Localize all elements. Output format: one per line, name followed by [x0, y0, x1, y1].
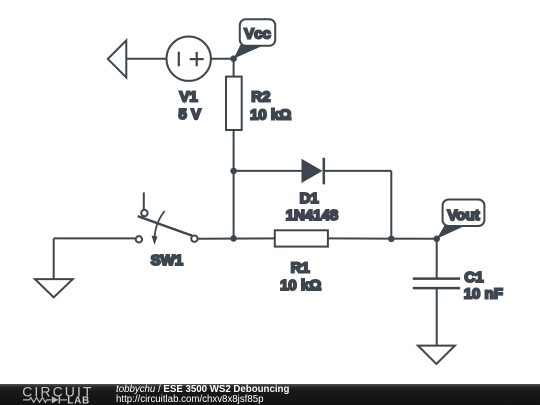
wire down right column [390, 171, 392, 239]
svg-text:Vcc: Vcc [244, 25, 271, 42]
svg-text:D1: D1 [300, 190, 319, 207]
voltage source V1 [167, 37, 211, 81]
wire C1 to ground [436, 288, 438, 347]
svg-text:10 kΩ: 10 kΩ [280, 277, 321, 294]
wire R1 right to Vout node [328, 237, 437, 239]
resistor R1 [275, 230, 328, 246]
node dot Vout [433, 236, 440, 243]
wire diode row right [324, 170, 392, 172]
wire mid row: switch to R1 [198, 237, 274, 239]
ground (right, under C1) [418, 346, 455, 364]
ground (left, under switch) [35, 279, 73, 297]
resistor R2 [226, 77, 242, 130]
svg-text:10 nF: 10 nF [464, 286, 503, 303]
svg-text:V1: V1 [179, 88, 197, 105]
node dot Vcc [230, 55, 237, 62]
svg-text:LAB: LAB [67, 395, 90, 405]
net flag Vcc [234, 19, 276, 59]
net flag Vout [437, 200, 485, 239]
svg-text:10 kΩ: 10 kΩ [250, 107, 291, 124]
junction dot diode row [230, 168, 237, 175]
ground (rotated left) at V1 negative terminal [108, 40, 127, 77]
svg-text:SW1: SW1 [151, 252, 184, 269]
wire ground to V1 [126, 58, 166, 60]
svg-text:R1: R1 [291, 259, 310, 276]
footer bar [0, 384, 540, 405]
capacitor C1 [413, 279, 460, 289]
svg-text:Vout: Vout [447, 207, 479, 224]
wire junction A down to mid row [233, 171, 235, 239]
wire node down to R2 [233, 59, 235, 78]
svg-text:1N4148: 1N4148 [286, 207, 339, 224]
wire V1 to node Vcc [211, 58, 234, 60]
junction dot right column [388, 236, 395, 243]
wire R2 bottom to diode junction [233, 130, 235, 171]
svg-text:R2: R2 [251, 88, 270, 105]
CircuitLab logo [20, 384, 120, 405]
wire Vout node to C1 [436, 239, 438, 279]
wire diode row left [234, 170, 303, 172]
svg-text:C1: C1 [464, 269, 483, 286]
junction dot mid row left [230, 235, 237, 242]
wire down to left ground [53, 238, 55, 279]
switch SW1 [136, 192, 198, 245]
wire left of switch [54, 237, 135, 239]
diode D1 [302, 158, 324, 185]
svg-text:5 V: 5 V [178, 106, 201, 123]
